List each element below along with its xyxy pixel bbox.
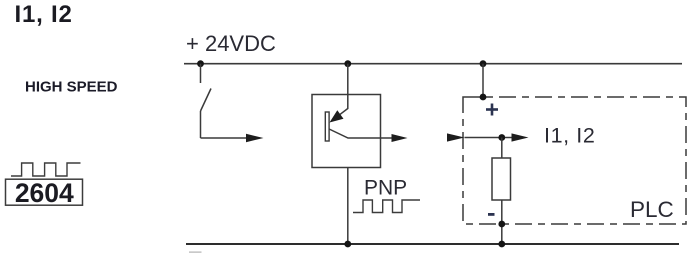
- svg-text:2604: 2604: [15, 178, 74, 208]
- resistor R1 (PLC input load): [492, 158, 511, 200]
- label + terminal: [486, 104, 498, 116]
- node bottom rail / PLC: [498, 241, 505, 248]
- artifact gray mark bottom left: [189, 251, 202, 253]
- node PLC top border: [480, 94, 487, 101]
- label - terminal: [488, 213, 495, 216]
- pulse waveform under PNP: [353, 200, 420, 213]
- wire collector output: [329, 129, 394, 138]
- node bottom rail / transistor: [344, 241, 351, 248]
- transistor Q1 (PNP in box): [312, 95, 381, 168]
- node top rail / switch: [197, 60, 204, 67]
- wire PLC input: [465, 137, 514, 139]
- svg-text:+ 24VDC: + 24VDC: [186, 31, 276, 56]
- node top rail / PLC supply: [480, 60, 487, 67]
- svg-text:PLC: PLC: [630, 197, 674, 222]
- wire resistor to 0V rail: [501, 200, 503, 244]
- node PLC input: [498, 134, 505, 141]
- wire input node to resistor: [501, 138, 503, 159]
- wire 0V bottom rail: [186, 243, 679, 245]
- arrow to I1, I2: [512, 133, 529, 141]
- pulse waveform icon (left legend): [11, 163, 81, 176]
- svg-text:I1, I2: I1, I2: [544, 123, 595, 147]
- arrow collector output: [392, 134, 408, 142]
- wire +24V top rail: [184, 63, 682, 65]
- wire top rail to PLC: [482, 64, 484, 97]
- wire transistor to 0V rail: [347, 168, 349, 245]
- node PLC bottom border: [498, 221, 505, 228]
- svg-text:HIGH SPEED: HIGH SPEED: [25, 78, 118, 95]
- svg-text:PNP: PNP: [364, 177, 407, 200]
- arrow signal into PLC: [447, 133, 465, 141]
- PLC enclosure (dash-dot box): [463, 97, 686, 224]
- arrow emitter into base bar: [330, 110, 344, 122]
- switch S1: [201, 64, 250, 138]
- svg-text:I1, I2: I1, I2: [15, 1, 73, 28]
- node top rail / transistor emitter: [344, 60, 351, 67]
- wire emitter from top rail: [340, 64, 348, 115]
- arrow switch output: [246, 134, 264, 142]
- module box 2604: [6, 178, 83, 208]
